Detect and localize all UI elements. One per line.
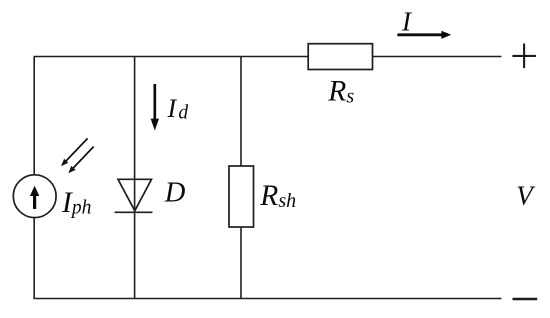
svg-text:D: D: [164, 177, 186, 208]
